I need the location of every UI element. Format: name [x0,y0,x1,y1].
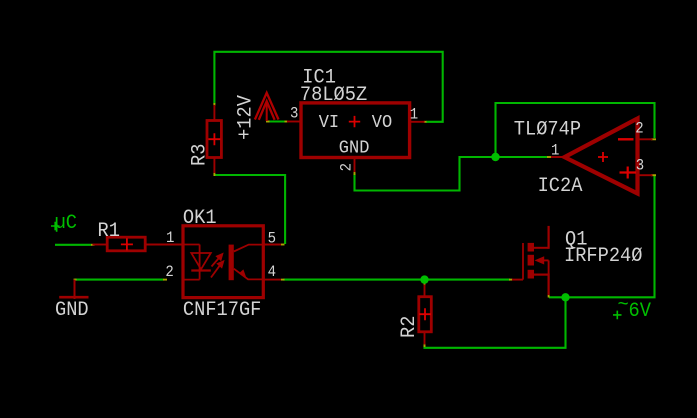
svg-text:3: 3 [636,158,644,175]
optocoupler OK1 box [183,226,263,298]
yellow overlap tip Q1 gate [509,279,513,281]
label IC1 [302,66,336,89]
svg-text:2: 2 [339,163,356,171]
svg-text:TLØ74P: TLØ74P [514,118,581,141]
op-amp minus mark pin2 [618,138,634,140]
op-amp pin1 stub [551,156,565,158]
pin cross uC [51,222,60,231]
yellow overlap tip R1 left [91,244,95,246]
svg-text:1: 1 [166,231,175,248]
value IRFP240 [564,244,643,267]
transistor Q1 MOSFET [512,226,549,295]
junction dot op-amp output net [491,153,499,161]
label R3 (rotated) [188,144,211,166]
svg-text:OK1: OK1 [183,206,217,229]
IC1 pin number 2 (rotated) [339,163,356,171]
supply symbol +12V [255,93,279,121]
svg-text:VO: VO [372,112,392,133]
svg-text:78LØ5Z: 78LØ5Z [300,83,367,106]
OK1 pin4 stub [263,279,281,281]
yellow overlap tip op-amp pin3 [651,174,656,176]
svg-text:R1: R1 [98,219,120,242]
yellow overlap tip IC1 pin3 [285,121,289,123]
value CNF17GF [183,298,261,321]
IC1 pin 1 stub [410,121,425,123]
phototransistor base bar [229,245,234,281]
source connect [534,274,549,276]
resistor R1 [93,237,184,251]
light arrow 2 [211,261,224,278]
svg-text:R2: R2 [397,316,420,338]
svg-text:GND: GND [339,138,370,159]
svg-text:2: 2 [165,264,173,281]
svg-text:R3: R3 [188,144,211,166]
IC1 pin number 3 [290,106,298,123]
pin cross ~6V [613,311,622,320]
svg-text:3: 3 [290,106,298,123]
yellow overlap tip +12V pin [266,121,270,123]
IC1 pin number 1 [410,107,419,124]
origin cross IC2A [598,152,608,162]
gate vertical line [522,243,524,280]
value 78L05Z [300,83,367,106]
yellow overlap tip R2 top [424,282,426,286]
svg-text:GND: GND [55,298,89,321]
OK1 inner LED lead [184,245,200,280]
light arrow 1 [212,253,223,266]
junction dot gate/R2 net [420,275,428,283]
op-amp pin3 stub [638,174,653,176]
IC1 text VI [319,112,339,133]
wire net +12V top loop: R3 top to IC1 pin1 [214,52,442,122]
OK1 pin number 4 [268,264,277,281]
svg-text:VI: VI [319,112,339,133]
svg-text:2: 2 [635,121,643,138]
LED cathode bar [191,269,211,271]
phototransistor collector [234,245,262,252]
drain connect [534,247,549,249]
yellow overlap tip R3 top [213,103,215,106]
OK1 pin number 1 [166,231,175,248]
yellow overlap tip GND [74,279,77,281]
wire junction down to R2 bottom [425,297,566,348]
ground symbol GND [59,280,88,299]
svg-text:+12V: +12V [234,95,257,140]
wire IC1 pin2 to op-amp output net [355,157,549,191]
supply label ~6V (green) [618,293,629,316]
op-amp IC2A triangle [565,119,638,194]
label TL074P [514,118,581,141]
channel bar middle [528,255,534,266]
label R2 (rotated) [397,316,420,338]
IC1 text GND [339,138,370,159]
IC1 text VO [372,112,392,133]
resistor R2 [419,285,432,345]
op-amp pin number 2 [635,121,643,138]
label GND [55,298,89,321]
yellow overlap tip R3 bottom [213,173,215,177]
bulk arrow tail [543,259,549,261]
IC1 pin 2 stub [354,158,356,173]
label R1 [98,219,120,242]
wire +12V supply to IC1 pin3 [268,120,286,122]
phototransistor emitter [234,269,262,280]
OK1 pin5 stub [263,244,281,246]
yellow overlap tip OK1 pin5 [281,244,285,246]
svg-text:1: 1 [551,143,560,160]
wire Q1 source to junction [549,296,566,298]
op-amp pin number 1 [551,143,560,160]
resistor R3 [207,105,221,173]
wire op-amp pin3 down right side to source junction [566,176,655,297]
svg-text:IRFP24Ø: IRFP24Ø [564,244,643,267]
origin cross R3 [208,133,220,145]
svg-text:µC: µC [55,211,77,234]
wire OK1 pin4 to Q1 gate through R2 junction [284,279,511,281]
gate lead [512,279,523,281]
label Q1 [565,228,587,251]
svg-text:~: ~ [618,293,629,316]
wire GND to OK1 pin2 [75,279,164,281]
label IC2A [538,174,583,197]
origin cross R2 [419,308,431,320]
OK1 pin number 5 [268,231,276,248]
yellow overlap tip IC1 pin2 [354,172,356,176]
op-amp plus mark pin3 [620,167,637,179]
yellow overlap tip op-amp pin2 [651,138,656,140]
yellow overlap tip Q1 source [548,294,550,298]
drain lead [547,226,549,249]
wire OK1 pin5 up to R3 bottom [214,175,285,244]
label OK1 [183,206,217,229]
voltage regulator IC1 box [301,103,410,158]
yellow overlap tip IC1 pin1 [424,121,427,123]
channel bar top [528,243,534,252]
label uC (green) [55,211,77,234]
yellow overlap tip R2 bottom [424,344,426,348]
svg-text:1: 1 [410,107,419,124]
channel bar bottom [528,270,534,279]
op-amp pin2 stub [638,138,653,140]
wire feedback loop junction to op-amp pin2 [496,103,655,157]
svg-text:5: 5 [268,231,276,248]
IC1 pin 3 stub [287,121,301,123]
yellow overlap tip OK1 pin2 [163,279,167,281]
yellow overlap tip OK1 pin4 [281,279,285,281]
emitter arrowhead [239,269,246,278]
bulk connect vertical [548,260,550,274]
svg-text:6V: 6V [629,299,652,322]
OK1 pin number 2 [165,264,173,281]
svg-text:IC2A: IC2A [538,174,583,197]
junction dot source net [561,293,569,301]
yellow overlap tip op-amp pin1 [547,156,551,158]
LED triangle [191,253,211,269]
svg-text:4: 4 [268,264,277,281]
origin cross R1 [121,238,133,250]
label +12V (rotated) [234,95,257,140]
source lead [547,274,549,296]
wire uC to R1 [55,244,92,246]
bulk arrowhead [535,256,545,264]
svg-text:CNF17GF: CNF17GF [183,298,261,321]
op-amp pin number 3 [636,158,644,175]
origin cross IC1 [349,116,360,127]
